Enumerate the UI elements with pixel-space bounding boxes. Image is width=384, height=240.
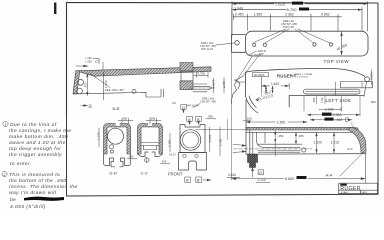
top view dim 6.700 / 1.940 xyxy=(232,8,362,32)
bolt / rear block xyxy=(341,82,373,88)
svg-text:1.350: 1.350 xyxy=(168,139,172,147)
svg-text:1.100: 1.100 xyxy=(325,108,334,112)
side bar (grip rail) xyxy=(304,89,361,94)
A-A' bore lines xyxy=(258,144,302,152)
D-D' section walls xyxy=(104,124,131,155)
svg-text:9 1/2 INCH: 9 1/2 INCH xyxy=(297,76,308,78)
svg-text:to enter.: to enter. xyxy=(10,161,32,167)
dims between views: 2.363 with blob xyxy=(307,114,360,116)
svg-text:0.850: 0.850 xyxy=(370,72,374,80)
C-C' sight notch xyxy=(148,123,152,127)
lug arrow xyxy=(252,166,254,177)
tab hole xyxy=(235,41,239,45)
svg-text:C-C': C-C' xyxy=(141,171,149,176)
svg-text:1°: 1° xyxy=(351,122,355,126)
svg-text:⌀.4375: ⌀.4375 xyxy=(212,79,216,88)
D-D' dims xyxy=(98,128,100,147)
svg-text:1.170: 1.170 xyxy=(208,134,212,142)
grip curve tail xyxy=(254,110,259,114)
svg-text:6.700: 6.700 xyxy=(287,7,298,12)
border frame xyxy=(67,3,379,197)
dims between views: .400 with blob xyxy=(310,119,352,121)
mid hatched block lower xyxy=(180,81,193,90)
drill note lower xyxy=(186,97,216,108)
FRONT small details xyxy=(183,154,186,157)
cut label A xyxy=(187,116,193,121)
svg-text:90-0000: 90-0000 xyxy=(254,73,265,77)
svg-text:1.700: 1.700 xyxy=(219,138,223,146)
top view dim row 0.450 1.350 2.363 0.962 xyxy=(233,14,341,31)
FRONT right dims xyxy=(209,127,211,152)
svg-text:1.100: 1.100 xyxy=(314,140,322,144)
A-A' vertical dims xyxy=(317,133,335,154)
A-A' rear curve hatched xyxy=(349,127,366,152)
svg-text:A': A' xyxy=(186,178,190,183)
svg-text:the bottom of the .450: the bottom of the .450 xyxy=(9,178,66,184)
svg-text:make bottom dim. .450: make bottom dim. .450 xyxy=(9,134,68,140)
section line left of A-A' xyxy=(196,129,246,131)
margin mark xyxy=(54,3,56,15)
top view dim 7.625 xyxy=(232,2,368,37)
svg-text:B-B': B-B' xyxy=(113,106,121,111)
svg-text:.150: .150 xyxy=(246,117,252,121)
note 1.700 5-PLCS xyxy=(259,90,274,101)
svg-text:≈.150 R: ≈.150 R xyxy=(251,53,262,57)
vertical dim 1.540 xyxy=(103,72,105,100)
A-A' left extension line xyxy=(231,8,233,180)
svg-text:2.363: 2.363 xyxy=(285,13,294,17)
svg-text:7.625: 7.625 xyxy=(275,1,286,6)
C-C' legs xyxy=(138,152,163,157)
svg-text:≈.150: ≈.150 xyxy=(85,56,92,60)
drill note top view holes xyxy=(281,19,297,29)
right rotated dim 0.850 xyxy=(371,70,373,86)
B-B' left slanted wall xyxy=(73,71,80,94)
svg-text:the trigger assembly: the trigger assembly xyxy=(9,152,62,158)
B-B' lower profile xyxy=(73,89,164,97)
svg-text:1.170: 1.170 xyxy=(97,132,101,140)
svg-text:1.350: 1.350 xyxy=(254,13,263,17)
dim 6.660 xyxy=(232,154,366,183)
svg-text:D: D xyxy=(182,105,185,110)
svg-text:.485: .485 xyxy=(298,134,304,138)
svg-text:-.400: -.400 xyxy=(335,118,343,122)
mid white box xyxy=(181,71,193,81)
dia .250 dim xyxy=(223,77,225,93)
svg-text:MARK II .22WMR: MARK II .22WMR xyxy=(295,73,313,76)
C-C' center hole symbol xyxy=(145,158,149,162)
svg-text:.550: .550 xyxy=(370,100,376,104)
C-C' inner steps xyxy=(141,143,159,150)
svg-text:B': B' xyxy=(197,178,201,183)
A-A' centerline xyxy=(233,148,312,150)
svg-text:⌀.250: ⌀.250 xyxy=(222,80,226,88)
bar holes xyxy=(253,43,333,47)
svg-text:B: B xyxy=(197,117,200,122)
A-A' body outline xyxy=(246,100,366,154)
D-D' legs xyxy=(104,154,131,167)
note 1 circled digit xyxy=(3,121,8,126)
FRONT view body xyxy=(179,125,207,171)
svg-text:2: 2 xyxy=(3,172,6,177)
svg-text:1.35: 1.35 xyxy=(320,97,324,103)
svg-text:SCALE: SCALE xyxy=(341,191,349,194)
dia .4375 dim xyxy=(213,78,215,93)
svg-text:.44: .44 xyxy=(233,78,238,82)
svg-text:0.962: 0.962 xyxy=(321,13,330,17)
svg-text:.062: .062 xyxy=(128,155,134,159)
FRONT barrel circle xyxy=(180,130,201,151)
mid hatched block upper xyxy=(180,63,193,72)
top view tab xyxy=(232,35,246,53)
svg-text:1.463: 1.463 xyxy=(271,82,279,86)
label D' xyxy=(258,170,263,175)
part number box xyxy=(253,73,269,77)
svg-text:≈1.5°: ≈1.5° xyxy=(169,153,177,157)
A-A' front lug xyxy=(248,154,258,167)
svg-text:TOP VIEW: TOP VIEW xyxy=(324,59,350,64)
svg-text:1: 1 xyxy=(4,122,7,127)
leaders to holes xyxy=(254,29,331,44)
svg-text:top deep enough for: top deep enough for xyxy=(9,146,61,152)
top view bar xyxy=(246,31,369,56)
svg-text:.340: .340 xyxy=(207,115,213,119)
A-A' inner pocket xyxy=(253,132,268,154)
barrel tenon pin xyxy=(193,84,212,92)
svg-text:D': D' xyxy=(259,171,263,175)
tenon centerline xyxy=(190,87,214,89)
svg-text:.450: .450 xyxy=(278,134,284,138)
svg-text:≈.250: ≈.250 xyxy=(85,60,92,64)
svg-text:.365: .365 xyxy=(122,116,128,120)
A-A' leader line xyxy=(340,152,364,177)
svg-text:⅛ R: ⅛ R xyxy=(347,147,353,151)
note 2 circled digit xyxy=(2,171,7,176)
svg-text:D-D': D-D' xyxy=(110,171,118,176)
cut label B xyxy=(196,116,202,121)
svg-text:2.363: 2.363 xyxy=(333,113,342,117)
svg-text:C: C xyxy=(95,59,98,64)
svg-text:.34: .34 xyxy=(172,101,177,105)
dims between views: 1.100 xyxy=(304,97,341,112)
cut label A' xyxy=(185,177,191,182)
svg-text:1.940: 1.940 xyxy=(234,7,243,11)
svg-text:0.700: 0.700 xyxy=(198,72,206,76)
receiver nose profile xyxy=(232,76,244,104)
cut label B' xyxy=(196,177,202,182)
svg-text:recess. The dimension the: recess. The dimension the xyxy=(9,184,78,190)
A-A' circle detail xyxy=(302,148,306,152)
B-B' pocket vertical dim xyxy=(86,74,88,96)
B-B' profile hole xyxy=(132,89,136,93)
C-C' section walls xyxy=(138,124,163,155)
svg-text:2.355: 2.355 xyxy=(277,120,286,124)
svg-text:DATE: DATE xyxy=(361,191,367,194)
B-B' pocket pin holes xyxy=(78,79,84,85)
svg-text:LEFT SIDE: LEFT SIDE xyxy=(326,98,352,103)
interior verticals and mini dims xyxy=(262,77,273,93)
svg-text:6.660: 6.660 xyxy=(285,177,294,181)
svg-text:≈⌀: ≈⌀ xyxy=(88,105,92,109)
svg-text:TAP 12-24: TAP 12-24 xyxy=(201,47,214,51)
svg-text:A: A xyxy=(188,117,191,122)
svg-text:A-A': A-A' xyxy=(326,172,334,177)
svg-text:This is measured to: This is measured to xyxy=(9,172,60,178)
dia 1.350 vertical dim xyxy=(341,32,343,55)
svg-text:Due to the limit of: Due to the limit of xyxy=(10,122,57,128)
svg-text:.425: .425 xyxy=(161,160,167,164)
cut label D with arrow xyxy=(181,105,186,110)
D-D' bore circle xyxy=(108,128,124,144)
drill note tab hole xyxy=(200,41,216,51)
svg-text:way I'm drawn will: way I'm drawn will xyxy=(9,190,57,196)
D-D' sight notch xyxy=(116,123,120,127)
svg-text:1.215: 1.215 xyxy=(331,140,339,144)
svg-text:⌀1.350: ⌀1.350 xyxy=(336,43,348,51)
B-B' rail strip xyxy=(76,67,211,76)
left side view outline xyxy=(246,68,365,107)
svg-text:0.840: 0.840 xyxy=(228,173,236,177)
svg-text:aware and 1.00 at the: aware and 1.00 at the xyxy=(9,140,66,146)
svg-text:1.540: 1.540 xyxy=(104,80,108,88)
left side muzzle circle xyxy=(365,77,370,82)
B-B' left dims xyxy=(76,65,88,67)
A-A' top rail hatched xyxy=(246,127,358,130)
under-bar rotated dims xyxy=(316,96,318,104)
svg-text:0.450: 0.450 xyxy=(235,13,244,17)
svg-text:FRONT: FRONT xyxy=(168,171,183,176)
svg-text:the castings, I make the: the castings, I make the xyxy=(9,128,71,134)
title block xyxy=(339,183,378,193)
FRONT left dims xyxy=(169,133,171,152)
handwritten note 2 xyxy=(9,172,78,210)
scribble blob xyxy=(24,197,64,201)
svg-text:.850: .850 xyxy=(84,82,88,88)
D-D' small holes xyxy=(109,145,113,149)
svg-text:.365: .365 xyxy=(150,116,156,120)
svg-text:.350: .350 xyxy=(312,97,316,103)
A-A' small texts xyxy=(274,131,276,156)
svg-text:be: be xyxy=(10,197,16,203)
svg-text:TAP 6-48: TAP 6-48 xyxy=(283,25,294,29)
grip front curves xyxy=(246,96,257,110)
handwritten note 1 xyxy=(9,122,71,167)
svg-text:4.055 (5°drill): 4.055 (5°drill) xyxy=(10,204,46,210)
svg-text:CSK 82°-.450: CSK 82°-.450 xyxy=(200,100,216,104)
